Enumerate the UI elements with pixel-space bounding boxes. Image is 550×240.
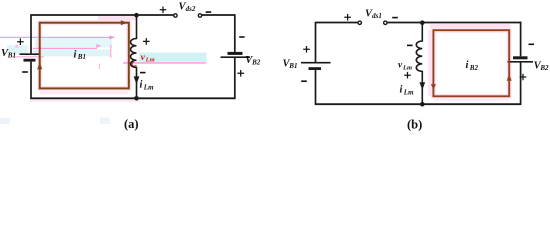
label + switch (a): [160, 7, 167, 14]
pink band above loop iB2: [430, 24, 510, 29]
svg-text:B2: B2: [469, 64, 479, 72]
svg-text:i: i: [466, 60, 469, 71]
halo of loop iB1: [40, 23, 129, 89]
wire right side (a) upper: [234, 14, 236, 52]
label - vLm (b): [407, 44, 413, 46]
wire top (b) left segment: [316, 22, 358, 24]
svg-text:(b): (b): [407, 118, 422, 131]
label - switch (a): [206, 11, 212, 13]
loop iB2 arrow right: [507, 74, 512, 81]
wire left side (a) lower: [30, 62, 32, 99]
halo of loop iB2: [433, 30, 509, 96]
label + VB2 (b): [520, 74, 527, 81]
pink arrow 1: [0, 36, 111, 38]
svg-text:Lm: Lm: [143, 83, 154, 91]
faint band bottom left: [0, 118, 10, 124]
label + switch (b): [344, 14, 351, 21]
node top (a): [134, 13, 139, 18]
wire right side (a) lower: [234, 58, 236, 98]
wire top (a) right segment: [202, 14, 235, 16]
wire top (a) left segment: [31, 14, 173, 16]
wire bottom (b): [315, 103, 522, 105]
loop iB1 arrow left: [37, 62, 42, 69]
arrow iLm (b): [419, 82, 425, 90]
inductor Lm (b): [416, 23, 422, 105]
wire left side (b) lower: [315, 70, 317, 104]
loop iB1: [40, 23, 129, 89]
arrow iLm (a): [134, 76, 140, 84]
switch S1 contact left: [358, 21, 361, 24]
pink vertical 1: [110, 45, 112, 58]
svg-text:B1: B1: [77, 53, 86, 61]
label - switch (b): [392, 17, 398, 19]
pink band under top wire (a): [98, 16, 137, 20]
pink vertical 2: [98, 63, 100, 69]
highlight band behind vLm: [139, 53, 207, 62]
wire right side (b) lower: [520, 63, 522, 105]
switch S2 contact right: [198, 14, 201, 17]
svg-text:(a): (a): [124, 117, 139, 131]
wire left side (b) upper: [315, 22, 317, 62]
highlight band B behind iB1: [33, 50, 111, 57]
wire right side (b) upper: [520, 22, 522, 57]
pink mark near VB1: [15, 45, 18, 48]
faint band left of (a): [100, 118, 110, 125]
label + VB2 (a): [237, 70, 244, 77]
label + VB1: [17, 38, 24, 45]
svg-text:B1: B1: [288, 62, 297, 70]
switch S2 contact left: [174, 14, 177, 17]
battery VB1 (b) short plate: [309, 67, 322, 70]
switch S1 contact right: [384, 21, 387, 24]
svg-text:i: i: [74, 50, 77, 61]
svg-text:i: i: [140, 80, 143, 91]
label - VB1 (b): [301, 80, 307, 82]
highlight band A left mesh: [35, 38, 112, 47]
battery VB2 (b) short plate: [513, 56, 528, 59]
loop iB2: [433, 30, 509, 96]
pink band left of loop iB2: [428, 30, 433, 96]
battery VB2 short plate: [228, 52, 243, 55]
battery VB2 long plate: [221, 56, 251, 58]
label + VB1 (b): [303, 46, 310, 53]
battery VB1 short plate: [24, 59, 36, 62]
svg-text:ds2: ds2: [186, 5, 196, 13]
label - VB2 (b): [529, 43, 535, 45]
wire top (b) right segment: [387, 22, 521, 24]
svg-text:ds1: ds1: [372, 12, 382, 20]
battery VB1 (b) long plate: [301, 62, 331, 64]
svg-text:i: i: [400, 85, 403, 96]
inductor Lm (a): [131, 15, 137, 98]
pink band below loop iB1 bottom: [40, 90, 128, 95]
svg-text:Lm: Lm: [402, 64, 412, 71]
pink line 3: [12, 56, 44, 58]
svg-text:B2: B2: [251, 59, 261, 67]
highlight band near VB1: [7, 45, 28, 54]
label - VB1: [22, 71, 28, 73]
pink line under vLm: [123, 62, 206, 64]
node bottom (a): [134, 96, 139, 101]
label - VB2 (a): [239, 36, 244, 38]
red curl on coil: [132, 62, 136, 67]
battery VB2 (b) long plate: [508, 61, 534, 63]
loop iB1 arrow top: [121, 20, 128, 25]
pink band below loop iB2 bottom: [434, 97, 509, 100]
battery VB1 long plate: [20, 53, 41, 55]
svg-text:Lm: Lm: [403, 88, 414, 96]
wire left side (a) upper: [30, 14, 32, 53]
node bottom (b): [420, 102, 425, 107]
svg-text:B2: B2: [539, 64, 549, 72]
svg-text:Lm: Lm: [145, 57, 155, 64]
label + vLm (a): [143, 38, 150, 45]
pink band under bottom wire (a): [30, 100, 140, 103]
label + vLm (b): [404, 72, 411, 79]
loop iB2 arrow left: [431, 84, 436, 90]
label - vLm (a): [140, 72, 146, 74]
wire bottom (a): [30, 97, 235, 99]
svg-text:B1: B1: [7, 52, 16, 60]
pink arrow 2: [33, 47, 97, 49]
node top (b): [420, 20, 425, 25]
